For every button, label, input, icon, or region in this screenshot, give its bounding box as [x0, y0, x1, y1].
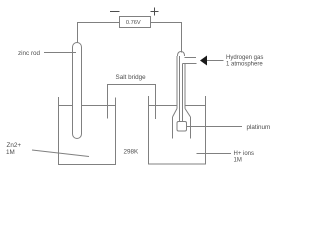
svg-text:zinc rod: zinc rod	[18, 50, 41, 57]
hydrogen electrode outer tube right wall	[184, 64, 186, 109]
hydrogen gas pointer line	[207, 60, 224, 62]
svg-text:H+ ions: H+ ions	[234, 151, 255, 157]
platinum electrode square	[177, 122, 187, 132]
svg-text:Zn2+: Zn2+	[7, 142, 22, 149]
svg-text:Salt bridge: Salt bridge	[116, 74, 147, 81]
minus terminal symbol	[110, 11, 120, 13]
svg-text:platinum: platinum	[247, 124, 271, 131]
svg-text:1M: 1M	[6, 149, 15, 156]
hydrogen electrode outer tube left wall	[176, 56, 178, 109]
gas inlet side arm	[183, 58, 197, 64]
electrode bulb flare	[173, 109, 191, 118]
platinum pointer line	[187, 126, 243, 128]
Zn2+ pointer line	[32, 150, 89, 157]
zinc rod pointer line	[44, 52, 76, 54]
hydrogen electrode inner tube	[180, 56, 183, 122]
H+ ions pointer line	[197, 153, 232, 155]
svg-text:1M: 1M	[234, 158, 242, 164]
svg-text:298K: 298K	[124, 148, 140, 155]
electrode bulb walls	[173, 117, 191, 139]
svg-text:0.76V: 0.76V	[126, 20, 141, 26]
svg-text:Hydrogen gas: Hydrogen gas	[226, 55, 263, 61]
left beaker solution level	[59, 105, 116, 107]
right beaker	[149, 96, 206, 164]
plus terminal symbol	[151, 8, 159, 16]
left beaker	[59, 97, 116, 165]
voltmeter V1 box	[120, 17, 151, 28]
hydrogen gas arrow	[200, 56, 207, 66]
svg-text:1 atmosphere: 1 atmosphere	[226, 62, 263, 68]
wire from zinc rod to voltmeter	[78, 23, 120, 44]
hydrogen electrode cap	[178, 52, 185, 57]
salt bridge tube	[108, 85, 156, 120]
right beaker solution level	[149, 105, 206, 107]
zinc rod electrode (capsule)	[73, 43, 82, 139]
wire from voltmeter to hydrogen electrode	[151, 23, 182, 53]
